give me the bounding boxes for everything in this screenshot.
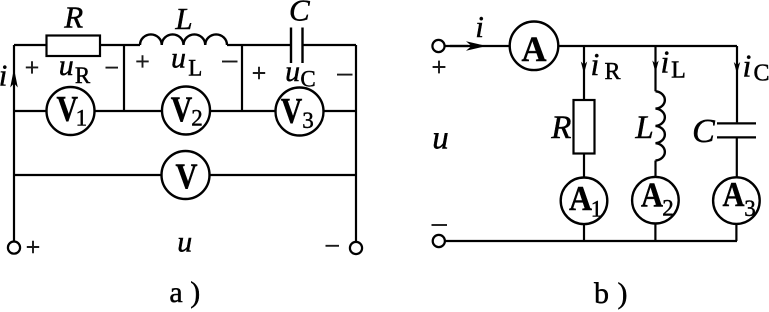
wire: junction node between L and C down to voltmeter row [241,45,243,111]
wire: L branch coil to A2 [654,161,656,178]
voltmeter U2 circle V2 [162,87,210,135]
svg-text:u: u [59,49,74,82]
wire: total voltmeter row right [210,174,357,176]
ammeter U6 circle A1 [561,178,608,225]
capacitor C plates (circuit a) [291,28,303,64]
current arrow i (circuit a, up) [10,69,18,88]
svg-text:C: C [753,61,769,87]
svg-text:): ) [618,277,628,310]
voltmeter U3 circle V3 [276,88,324,136]
svg-text:C: C [300,67,315,92]
minus sign uR [106,67,119,69]
wire: L branch A2 to bottom wire [654,224,656,242]
svg-text:C: C [289,0,310,28]
wire: R branch vertical upper [583,46,585,100]
minus sign uL [222,61,238,63]
wire: a top segment C to right [304,44,357,46]
plus sign (b top terminal) [433,61,446,74]
svg-text:1: 1 [76,106,88,131]
wire: voltmeter row left of V1 [14,110,47,112]
svg-text:i: i [661,44,670,80]
wire: a top segment L to C [227,44,290,46]
svg-text:R: R [550,110,571,146]
svg-text:V: V [176,156,198,196]
svg-text:C: C [692,113,715,150]
svg-text:R: R [63,0,83,35]
wire: a top segment R to L [100,44,140,46]
branch arrow iL [652,61,658,73]
ammeter U7 circle A2 [632,177,679,224]
svg-text:a: a [169,276,182,309]
wire: b top from terminal to ammeter A [445,45,510,47]
plus sign uL [136,55,148,67]
wire: R branch rect to A1 [583,154,585,178]
inductor L (circuit b) [656,91,665,160]
svg-text:A: A [641,176,664,215]
terminal b plus (top left) [432,40,444,52]
svg-text:A: A [723,175,746,214]
svg-text:i: i [743,48,752,84]
svg-text:3: 3 [302,108,314,133]
plus sign uC [253,67,265,79]
resistor R (circuit a) [47,36,101,57]
branch arrow iR [581,62,587,74]
terminal a plus (bottom left) [8,242,20,254]
resistor R (circuit b) [574,100,595,154]
wire: b top from A to C branch corner [558,45,737,47]
svg-text:R: R [75,63,91,88]
wire: C branch vertical upper [736,46,738,122]
svg-text:i: i [0,58,7,93]
wire: a top segment left of R [14,44,47,46]
svg-text:3: 3 [744,196,756,221]
svg-text:u: u [177,226,192,259]
plus sign u (bottom) [27,241,39,253]
svg-text:u: u [285,55,300,88]
wire: voltmeter row V2 to V3 [210,110,276,112]
wire: a right vertical [355,45,357,242]
wire: L branch vertical upper [654,46,656,91]
svg-text:L: L [671,58,686,84]
ammeter U5 circle A [510,22,559,71]
svg-text:V: V [281,91,303,131]
ammeter U8 circle A3 [713,177,760,224]
svg-text:A: A [569,179,593,218]
branch arrow iC [734,62,740,74]
svg-text:V: V [171,89,193,129]
svg-text:R: R [604,59,620,85]
wire: circuit a left vertical [13,45,15,242]
svg-text:i: i [475,9,484,44]
voltmeter U4 circle V [162,151,210,199]
svg-text:): ) [190,276,200,309]
terminal a minus (bottom right) [350,242,362,254]
wire: b bottom from terminal to C branch [445,240,737,242]
svg-text:b: b [594,277,609,310]
wire: C branch A3 to bottom wire [735,224,737,241]
wire: voltmeter row V3 to right vertical [324,110,357,112]
current arrow i (circuit b, right) [450,45,468,47]
svg-text:A: A [522,29,547,69]
svg-text:u: u [171,42,186,75]
inductor L (circuit a) [140,34,227,45]
svg-text:L: L [174,1,192,36]
wire: C branch capacitor to A3 [736,138,738,177]
svg-text:u: u [432,121,449,157]
minus sign u (bottom) [326,245,340,247]
wire: junction node between R and L down to voltmeter row [123,45,125,111]
capacitor C plates (circuit b) [717,123,756,137]
plus sign uR [26,61,38,73]
svg-text:L: L [188,55,202,80]
wire: total voltmeter row left [14,174,162,176]
terminal b minus (bottom left) [433,235,445,247]
minus sign uC [337,74,353,76]
wire: voltmeter row V1 to V2 [95,110,163,112]
svg-text:i: i [591,46,600,82]
svg-text:2: 2 [191,106,203,131]
minus sign (b bottom terminal) [432,224,448,226]
svg-text:1: 1 [591,197,603,222]
wire: R branch A1 to bottom wire [583,224,585,241]
voltmeter U1 circle V1 [47,87,95,135]
svg-text:L: L [634,110,653,146]
svg-text:2: 2 [662,196,674,221]
